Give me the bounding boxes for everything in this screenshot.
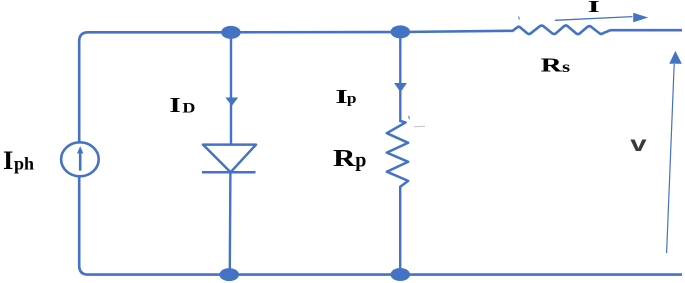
- stray tick near Rs: [519, 17, 520, 20]
- junction node A (top, diode branch): [221, 26, 241, 39]
- svg-text:I: I: [588, 0, 600, 16]
- label Ip: [335, 84, 356, 107]
- stray tick near Rp: [409, 116, 410, 119]
- diode D1: [202, 145, 256, 173]
- svg-text:R: R: [333, 145, 356, 172]
- label Rp: [333, 145, 366, 172]
- svg-text:I: I: [3, 145, 13, 175]
- junction node C (bottom, diode branch): [219, 268, 239, 281]
- arrow ID (current into diode): [225, 98, 238, 106]
- wire Rp branch lower: [399, 187, 401, 269]
- label ID: [169, 93, 195, 117]
- wire left rail lower and bottom-left corner: [79, 176, 229, 274]
- stray dash near Rp: [414, 125, 425, 127]
- svg-text:I: I: [169, 93, 181, 117]
- svg-text:s: s: [562, 58, 570, 76]
- label Rs: [541, 55, 570, 77]
- svg-text:R: R: [541, 55, 563, 77]
- arrow I (output current, thin line with head): [555, 13, 648, 22]
- svg-text:p: p: [355, 149, 366, 171]
- junction node D (bottom, Rp branch): [391, 268, 411, 281]
- wire top middle (node A to node B): [231, 31, 400, 34]
- junction node B (top, Rp branch): [391, 25, 411, 38]
- resistor Rs: [513, 26, 611, 35]
- svg-text:ph: ph: [14, 154, 34, 174]
- wire diode branch lower: [229, 172, 232, 269]
- wire node B to Rs: [400, 31, 512, 32]
- wire top-left and left rail upper: [79, 32, 231, 142]
- label Iph: [3, 145, 34, 175]
- arrow Ip (current into Rp): [394, 83, 407, 92]
- wire Rp branch upper: [399, 38, 401, 122]
- wire top right: [611, 29, 683, 32]
- resistor Rp: [387, 121, 408, 187]
- svg-text:v: v: [630, 133, 647, 156]
- wire bottom: [229, 273, 682, 276]
- wire diode branch upper: [230, 38, 232, 145]
- svg-text:D: D: [182, 99, 195, 116]
- current source Iph: [61, 142, 99, 176]
- svg-text:p: p: [347, 91, 357, 107]
- arrow V (output voltage, thin line with head): [667, 51, 682, 253]
